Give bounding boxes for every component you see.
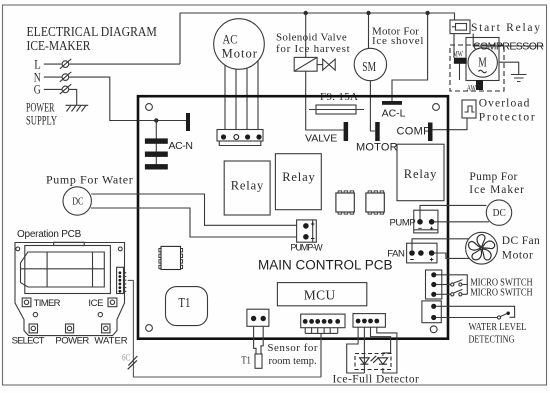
svg-text:MW: MW	[453, 49, 463, 59]
svg-text:DC: DC	[493, 207, 506, 219]
svg-text:SM: SM	[362, 58, 376, 74]
svg-text:Pump For: Pump For	[469, 171, 517, 183]
svg-text:MCU: MCU	[304, 287, 336, 302]
svg-text:AC-L: AC-L	[382, 108, 406, 120]
svg-text:DC Fan: DC Fan	[502, 235, 540, 247]
svg-text:Relay: Relay	[231, 179, 264, 193]
svg-text:MAIN CONTROL PCB: MAIN CONTROL PCB	[258, 258, 393, 273]
svg-text:PUMP-W: PUMP-W	[290, 242, 323, 252]
svg-text:Operation PCB: Operation PCB	[17, 229, 82, 240]
svg-text:COMPRESSOR: COMPRESSOR	[473, 41, 544, 53]
svg-text:DC: DC	[72, 195, 83, 208]
svg-text:Motor: Motor	[502, 249, 534, 261]
svg-text:MOTOR: MOTOR	[356, 142, 398, 154]
svg-text:AC: AC	[223, 33, 238, 47]
svg-text:COMP: COMP	[397, 126, 431, 138]
svg-text:Ice shovel: Ice shovel	[372, 35, 424, 47]
svg-text:L: L	[34, 56, 40, 71]
svg-text:POWER: POWER	[55, 335, 89, 346]
svg-text:Ice-Full Detector: Ice-Full Detector	[333, 373, 420, 385]
svg-text:DETECTING: DETECTING	[469, 335, 515, 346]
svg-text:Relay: Relay	[404, 167, 437, 181]
svg-text:Sensor for: Sensor for	[267, 342, 318, 354]
svg-text:Pump For Water: Pump For Water	[46, 173, 133, 187]
svg-text:SELECT: SELECT	[12, 335, 45, 346]
svg-text:Protector: Protector	[479, 111, 537, 123]
svg-text:Relay: Relay	[282, 170, 315, 184]
svg-text:6C: 6C	[122, 352, 131, 362]
svg-text:M: M	[478, 55, 487, 70]
svg-text:PUMP: PUMP	[390, 217, 416, 228]
svg-text:TIMER: TIMER	[34, 298, 61, 309]
svg-text:G: G	[34, 83, 41, 97]
svg-text:WATER: WATER	[94, 335, 127, 346]
svg-text:Overload: Overload	[479, 98, 531, 110]
svg-text:for Ice harvest: for Ice harvest	[276, 43, 350, 55]
svg-text:ELECTRICAL DIAGRAM: ELECTRICAL DIAGRAM	[27, 23, 158, 39]
svg-text:T1: T1	[241, 354, 251, 366]
svg-text:FAN: FAN	[387, 248, 405, 259]
svg-text:Motor: Motor	[222, 46, 258, 60]
svg-text:Start Relay: Start Relay	[471, 22, 542, 34]
svg-text:AW: AW	[467, 82, 476, 92]
svg-text:ICE-MAKER: ICE-MAKER	[27, 38, 91, 53]
svg-text:T1: T1	[178, 294, 190, 310]
svg-text:Ice Maker: Ice Maker	[469, 184, 525, 196]
svg-text:AC-N: AC-N	[169, 140, 193, 152]
svg-text:WATER LEVEL: WATER LEVEL	[469, 321, 527, 333]
svg-text:Solenoid Valve: Solenoid Valve	[276, 32, 347, 44]
svg-text:room temp.: room temp.	[269, 355, 317, 367]
svg-text:VALVE: VALVE	[305, 133, 337, 145]
svg-text:ICE: ICE	[88, 298, 103, 309]
svg-text:SUPPLY: SUPPLY	[26, 114, 57, 128]
svg-text:MICRO SWITCH: MICRO SWITCH	[470, 287, 532, 299]
